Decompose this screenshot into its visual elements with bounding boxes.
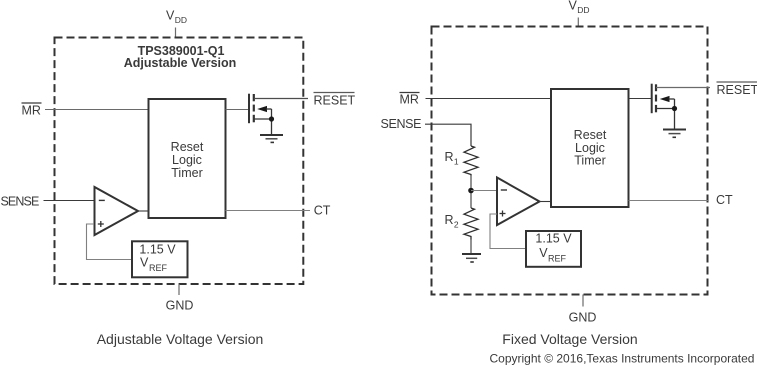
svg-text:Timer: Timer <box>171 166 202 180</box>
junction node divider tap <box>468 188 474 194</box>
comparator A1 (left) <box>95 187 139 235</box>
wire VDD stub (right) <box>577 18 579 27</box>
svg-text:Reset: Reset <box>574 128 607 142</box>
svg-text:RESET: RESET <box>314 94 356 108</box>
svg-text:2: 2 <box>454 220 459 230</box>
svg-text:REF: REF <box>149 263 168 273</box>
svg-text:V: V <box>569 0 578 13</box>
svg-text:1.15 V: 1.15 V <box>139 243 176 257</box>
transistor Q1 open-drain NMOS (right) <box>652 84 710 130</box>
svg-text:SENSE: SENSE <box>381 117 422 131</box>
svg-text:CT: CT <box>716 193 733 207</box>
wire comparator output to logic block (left) <box>138 210 149 212</box>
wire SENSE to comparator minus input <box>44 200 95 202</box>
svg-text:V: V <box>539 246 548 260</box>
svg-text:V: V <box>166 9 175 23</box>
pin RESET (right) <box>717 82 757 97</box>
svg-text:GND: GND <box>569 311 597 325</box>
pin RESET (left) <box>314 93 356 108</box>
svg-text:RESET: RESET <box>717 83 757 97</box>
ground at Q1 source (right) <box>663 130 686 138</box>
ground at divider bottom <box>462 254 481 262</box>
svg-text:DD: DD <box>175 15 187 25</box>
svg-text:MR: MR <box>22 104 41 118</box>
block U1 Reset Logic Timer (right) <box>551 89 629 207</box>
transistor Q1 open-drain NMOS (left) <box>249 94 308 135</box>
block VREF 1.15V reference (right) <box>526 231 581 267</box>
block U1 Reset Logic Timer (left) <box>149 99 226 218</box>
svg-text:SENSE: SENSE <box>1 195 39 209</box>
svg-text:Fixed Voltage Version: Fixed Voltage Version <box>502 331 637 347</box>
svg-text:Copyright © 2016,Texas Instrum: Copyright © 2016,Texas Instruments Incor… <box>490 352 755 366</box>
svg-text:1.15 V: 1.15 V <box>535 232 572 246</box>
svg-text:R: R <box>445 150 454 164</box>
wire VDD stub (left) <box>175 28 177 38</box>
wire R1 to R2 <box>470 176 472 209</box>
svg-text:DD: DD <box>577 5 589 15</box>
wire CT output (right) <box>629 200 709 202</box>
IC boundary box (adjustable version, dashed) <box>55 38 304 285</box>
wire VREF to comparator plus input (right) <box>490 214 526 249</box>
resistor R2 <box>445 208 479 240</box>
wire MR to logic block (left) <box>45 109 149 111</box>
resistor R1 <box>445 146 479 176</box>
svg-text:Adjustable Version: Adjustable Version <box>124 56 237 70</box>
svg-text:R: R <box>445 213 454 227</box>
svg-text:V: V <box>140 256 149 270</box>
svg-text:GND: GND <box>166 299 194 313</box>
node VDD (right) <box>569 0 590 15</box>
pin MR (right) <box>400 93 420 107</box>
node VDD (left) <box>166 9 187 26</box>
wire MR to logic block (right) <box>426 98 552 100</box>
ground at Q1 source (left) <box>260 135 283 142</box>
comparator A1 (right) <box>497 178 540 226</box>
block VREF 1.15V reference (left) <box>132 241 188 277</box>
wire VREF to comparator plus input (left) <box>87 224 132 260</box>
IC boundary box (fixed version, dashed) <box>432 27 708 295</box>
wire GND stub (right) <box>582 295 584 307</box>
svg-text:MR: MR <box>400 93 419 107</box>
junction dot Q1 source-body (right) <box>672 106 677 111</box>
wire gate drive (left) <box>226 109 249 111</box>
svg-text:Logic: Logic <box>172 153 202 167</box>
svg-text:Adjustable Voltage Version: Adjustable Voltage Version <box>97 331 264 347</box>
wire SENSE to divider (right) <box>425 124 471 146</box>
svg-text:REF: REF <box>548 254 567 264</box>
wire R2 to ground <box>470 240 472 255</box>
wire GND stub (left) <box>178 284 180 295</box>
svg-text:Timer: Timer <box>574 154 605 168</box>
wire tap to comparator minus input <box>471 190 497 192</box>
wire gate drive (right) <box>629 98 652 100</box>
wire comparator output to logic block (right) <box>539 201 551 203</box>
pin MR (left) <box>22 103 42 118</box>
wire CT output (left) <box>226 210 311 212</box>
svg-text:1: 1 <box>454 157 459 167</box>
svg-text:CT: CT <box>314 204 331 218</box>
junction dot Q1 source-body (left) <box>269 116 274 121</box>
svg-text:Reset: Reset <box>171 140 204 154</box>
